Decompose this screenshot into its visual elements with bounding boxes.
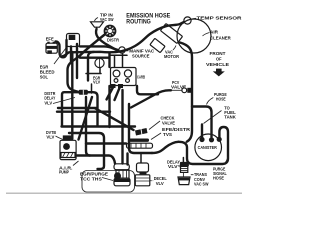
wire: vertical x77 with elbow right (76, 44, 78, 78)
wire: fuel tank hose stub (201, 125, 203, 139)
svg-text:ROUTING: ROUTING (126, 19, 151, 26)
PCV valve symbol (171, 88, 192, 93)
svg-text:VLV: VLV (168, 164, 179, 169)
svg-text:SOURCE: SOURCE (132, 54, 150, 59)
wire: nest diagonal down-right to check valve (95, 108, 134, 130)
wire: stub down from y153 into cylinder (126, 154, 128, 165)
wire: corner from swoosh down at x88 (88, 52, 94, 81)
svg-text:CARB: CARB (137, 75, 145, 80)
label MANIF VAC SOURCE (126, 48, 155, 58)
wire: nest diagonal down-left to pump (79, 97, 93, 140)
svg-text:VLV: VLV (93, 80, 101, 85)
svg-text:VLV: VLV (44, 100, 53, 105)
svg-text:SOL: SOL (40, 74, 48, 79)
label AIR CLEANER with leader (203, 29, 232, 40)
svg-text:CLEANER: CLEANER (210, 36, 231, 41)
svg-text:TVS: TVS (163, 132, 172, 137)
air cleaner body (150, 19, 211, 53)
svg-text:MOTOR: MOTOR (164, 54, 180, 59)
label PURGE HOSE with leader (207, 92, 227, 105)
svg-text:AIR: AIR (210, 29, 219, 34)
label FRONT OF VEHICLE (206, 51, 229, 67)
svg-text:TCC THS: TCC THS (80, 176, 102, 181)
label EFE/DISTR TVS with leader (151, 127, 191, 140)
trans conv vac switch cup (178, 177, 190, 185)
title EMISSION HOSE ROUTING (126, 12, 170, 25)
wire: vertical x122 down to THS cylinder (121, 90, 123, 164)
svg-text:DISTR: DISTR (107, 37, 120, 42)
svg-text:OF: OF (216, 57, 222, 62)
svg-text:HOSE: HOSE (216, 96, 226, 101)
wire: nest horizontal y108 (58, 107, 97, 109)
svg-text:MANIF VAC: MANIF VAC (129, 48, 155, 53)
wire: elbow from decel run up to canister surround (152, 142, 179, 153)
label DISTR DELAY VLV with leader (44, 91, 75, 105)
decel valve stack (135, 154, 150, 186)
check valve component (135, 128, 148, 136)
bottom separator line (6, 192, 242, 194)
svg-text:VEHICLE: VEHICLE (206, 62, 229, 67)
EGR bleed solenoid box (67, 34, 80, 47)
svg-text:FRONT: FRONT (210, 51, 226, 56)
wire: canister surround hose with fuel-tank arch (179, 127, 229, 164)
svg-text:VLV: VLV (156, 181, 165, 186)
wire: horizontal hose y57.7 above EGR valve (80, 57, 109, 59)
wire: nest horizontal y143.5 to TVS (86, 142, 126, 144)
wire: tip-in hose down to manifold vac port (96, 29, 117, 50)
wire: vertical x86 elbow to THS run (86, 97, 90, 156)
svg-text:TEMP SENSOR: TEMP SENSOR (197, 16, 243, 21)
label TRANS CONV VAC SW with leader (191, 172, 209, 187)
svg-text:HOSE: HOSE (213, 175, 224, 180)
wire: upper trunk from EGR bleed sol to manifold vac port (80, 46, 118, 50)
wire: main trunk swoosh from EFE hook to air cleaner snorkel and temp sensor (62, 22, 184, 57)
wire: air cleaner elbow into right vertical trunk (180, 43, 192, 142)
EFE/DISTR TVS component (127, 139, 153, 149)
label EGR VLV (93, 75, 101, 84)
AIR pump with DVTB valve cap (60, 135, 76, 159)
label PURGE SIGNAL HOSE with leader (213, 157, 228, 181)
wire: pump-side horizontal into THS cylinder (77, 156, 115, 164)
label CHECK VALVE with leader (149, 115, 175, 129)
node: manifold vacuum source port (119, 47, 125, 53)
wire: nest horizontal y111.7 (57, 110, 110, 112)
svg-text:TANK: TANK (224, 115, 236, 120)
distr delay valve component (79, 90, 88, 95)
distributor rosette (104, 25, 117, 38)
label EGR BLEED SOL with leader (40, 48, 66, 79)
label DVTB VLV with leader (46, 130, 63, 139)
wire: vertical x110 (108, 53, 110, 67)
wire: diagonal from nest to PCV run (131, 90, 171, 107)
wire: vertical x129 elbow right y153 (129, 104, 152, 153)
EFE valve (46, 42, 57, 54)
wire: from delay valve right corner down (88, 92, 98, 126)
label EGR/PURGE TCC THS with leader (80, 171, 113, 181)
wire: purge branch elbow to canister port (192, 107, 212, 138)
temp sensor circle (184, 17, 191, 24)
wire: port stub into carb (111, 54, 128, 56)
label PCV VALVE (171, 80, 186, 89)
wire: nest horizontal y126.5 (62, 125, 136, 127)
EGR/PURGE TCC THS cylinder (114, 164, 130, 186)
thin enclosure around EGR/PURGE THS group (82, 171, 135, 193)
label DELAY VLV with arrow leader (167, 159, 183, 169)
svg-text:EFE: EFE (46, 37, 54, 42)
wire: vertical from EGR bleed sol box bottom (70, 47, 72, 64)
wire: vertical x72 down to AIR pump (71, 52, 73, 139)
wire: carb right elbow to mid horizontal (137, 86, 158, 94)
front-of-vehicle arrow (213, 69, 225, 77)
EGR valve mushroom (95, 58, 104, 73)
wire: distributor hose down-left to distr delay valve (68, 34, 107, 93)
svg-text:PUMP: PUMP (59, 170, 69, 175)
delay valve cylinder (180, 158, 189, 177)
svg-text:VAC SW: VAC SW (194, 182, 209, 187)
wire: EFE hook hose (56, 40, 67, 57)
carburetor (111, 68, 137, 86)
label TIP IN VAC SW (95, 13, 114, 22)
label DECEL VLV with dashed leader (151, 176, 167, 186)
wire: nest horizontal y133 elbow down to THS area (69, 133, 104, 169)
canister (195, 134, 222, 161)
svg-text:VALVE: VALVE (162, 121, 175, 126)
wire: distr delay stub left and vertical x62 (62, 92, 79, 126)
tip-in vacuum switch funnel (91, 22, 104, 30)
label A.I.R. PUMP with leader (59, 161, 79, 175)
wire: carb stub hoses (107, 86, 115, 100)
svg-text:CANISTER: CANISTER (198, 145, 217, 150)
svg-text:VAC SW: VAC SW (100, 17, 114, 22)
label TEMP SENSOR with leader (192, 16, 243, 21)
label TO FUEL TANK with leader (204, 106, 237, 124)
wire: cross segments near EGR valve (86, 73, 101, 75)
svg-text:VLV: VLV (46, 135, 55, 140)
label VAC MOTOR with leader (164, 46, 180, 60)
svg-text:VALVE: VALVE (171, 84, 186, 89)
